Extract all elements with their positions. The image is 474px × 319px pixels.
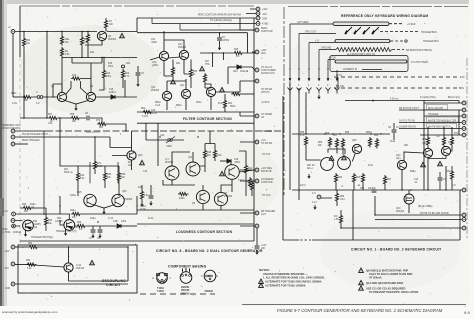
misc small value labels xyxy=(12,14,460,235)
svg-text:R68a: R68a xyxy=(410,171,416,173)
svg-text:GND: GND xyxy=(262,19,267,21)
diode CR4 xyxy=(237,65,241,69)
resistor R47B xyxy=(213,149,216,160)
svg-text:R70: R70 xyxy=(422,139,427,141)
svg-text:R31a: R31a xyxy=(196,102,202,104)
svg-text:CIRCUIT NO. 8 - BOARD NO. 2 DU: CIRCUIT NO. 8 - BOARD NO. 2 DUAL CONTOUR… xyxy=(156,249,263,253)
wire: lower rail y57 xyxy=(62,57,137,59)
svg-text:(-) TRIG: (-) TRIG xyxy=(2,232,11,234)
svg-text:100: 100 xyxy=(109,24,114,26)
resistor R71 xyxy=(93,160,96,171)
svg-text:10k: 10k xyxy=(48,223,53,225)
svg-text:+C BUS: +C BUS xyxy=(261,102,270,104)
svg-text:TRIGGER: TRIGGER xyxy=(428,114,439,116)
diode CR2 xyxy=(117,224,121,228)
svg-text:LOUDNESS: LOUDNESS xyxy=(261,179,274,181)
resistor R16 xyxy=(102,69,105,80)
wire rows to terminals xyxy=(399,103,462,135)
svg-text:R50: R50 xyxy=(193,71,198,73)
resistor R64 xyxy=(15,264,26,266)
wire: mid rail xyxy=(292,189,460,191)
wire: terminal feeds xyxy=(239,170,254,181)
wire: pair links xyxy=(306,147,355,162)
svg-text:R41: R41 xyxy=(64,169,69,171)
terminal xyxy=(255,114,259,118)
resistor R46 xyxy=(203,149,206,160)
wire: staircase bus drops xyxy=(290,24,336,70)
svg-text:TRIGGER SW(TH)(L): TRIGGER SW(TH)(L) xyxy=(31,237,53,239)
wire: top dash-dot border xyxy=(20,5,254,7)
jack connector xyxy=(37,96,40,99)
wire: right border of contour generator xyxy=(253,18,255,241)
svg-text:ALTERNATE FOR T1063: 2N3906.: ALTERNATE FOR T1063: 2N3906. xyxy=(265,284,306,288)
svg-text:R47: R47 xyxy=(205,61,210,63)
terminal row right edge xyxy=(462,101,466,105)
resistor R43 xyxy=(140,190,143,201)
svg-text:(LAMP): (LAMP) xyxy=(55,220,63,223)
svg-text:R49a: R49a xyxy=(179,198,185,200)
svg-text:FROM CHASSIS: FROM CHASSIS xyxy=(2,127,20,130)
wire: top rail links xyxy=(137,33,248,67)
capacitor C9 xyxy=(392,130,397,132)
resistor R56 xyxy=(328,137,331,148)
terminal -10V xyxy=(11,262,15,266)
svg-text:REFERENCE ONLY KEYBOARD WIRING: REFERENCE ONLY KEYBOARD WIRING DIAGRAM xyxy=(341,14,428,18)
resistor R30 xyxy=(44,216,47,227)
transistor Q17 xyxy=(179,50,188,59)
svg-text:TO LOUD: TO LOUD xyxy=(262,131,273,133)
svg-text:R63: R63 xyxy=(356,177,361,179)
svg-text:-1k: -1k xyxy=(414,182,418,184)
svg-text:GND: GND xyxy=(5,288,10,290)
svg-text:TRIGGER SW(T)(?): TRIGGER SW(T)(?) xyxy=(56,231,77,233)
svg-text:R14a: R14a xyxy=(90,218,96,220)
page scan edges xyxy=(0,0,474,4)
svg-text:R19a: R19a xyxy=(30,204,36,206)
svg-text:TO KB SW: TO KB SW xyxy=(261,89,273,91)
resistor R-6 xyxy=(339,214,342,225)
svg-text:10k: 10k xyxy=(24,100,29,102)
svg-text:Q8 AND Q11 MATCHED PAIR, PNP: Q8 AND Q11 MATCHED PAIR, PNP xyxy=(366,268,408,272)
resistor R40 xyxy=(76,172,79,183)
svg-text:KB TRIGGER: KB TRIGGER xyxy=(261,211,275,213)
svg-text:TO VCF: TO VCF xyxy=(262,154,271,156)
wire: base feed xyxy=(15,221,23,227)
svg-text:+10V: +10V xyxy=(262,9,268,11)
svg-text:FIGURE 9-7 CONTOUR GENERATOR A: FIGURE 9-7 CONTOUR GENERATOR AND KEYBOAR… xyxy=(277,308,443,313)
svg-text:-10V: -10V xyxy=(262,14,267,16)
svg-text:C1: C1 xyxy=(97,238,101,240)
warning triangle note 3 xyxy=(120,33,125,37)
svg-text:R64: R64 xyxy=(26,260,31,262)
svg-text:1000pF: 1000pF xyxy=(368,188,376,190)
wire: trigger bus dash xyxy=(380,31,419,33)
capacitor C43A xyxy=(149,196,154,198)
svg-text:R72: R72 xyxy=(454,133,459,135)
svg-text:C43: C43 xyxy=(109,89,114,91)
svg-text:LOWER SW ON: LOWER SW ON xyxy=(399,127,416,129)
transistor Q38 xyxy=(352,144,361,153)
svg-text:Q10: Q10 xyxy=(74,227,79,229)
wire: left border vertical xyxy=(19,6,21,57)
svg-text:Q24: Q24 xyxy=(138,155,143,157)
wire: base cross-couple xyxy=(53,81,87,97)
svg-text:10mV TO 20mV LOWER THAN NPN: 10mV TO 20mV LOWER THAN NPN xyxy=(369,272,412,276)
terminal GND xyxy=(11,282,15,286)
svg-text:R16: R16 xyxy=(106,73,111,75)
wire: BRN-B dashed row xyxy=(334,87,458,89)
caption rule xyxy=(242,304,466,306)
svg-text:Q40: Q40 xyxy=(396,155,401,157)
svg-text:R26: R26 xyxy=(22,204,27,206)
terminal xyxy=(255,79,259,83)
svg-text:FILTER CONTOUR SECTION: FILTER CONTOUR SECTION xyxy=(183,117,232,121)
warning triangle xyxy=(200,66,205,70)
resistor R10 xyxy=(22,95,33,98)
svg-text:R50: R50 xyxy=(26,40,31,42)
svg-text:5k: 5k xyxy=(193,74,196,76)
wire: top supply rail xyxy=(15,31,137,33)
svg-text:(AF): (AF) xyxy=(396,157,401,160)
svg-text:E: E xyxy=(153,278,155,280)
transistor Q2 xyxy=(86,92,95,101)
transistor Q22 xyxy=(162,91,171,100)
svg-text:R53a: R53a xyxy=(176,105,182,107)
wire: block interconnects xyxy=(164,60,211,92)
wire: bottom rail of filter box xyxy=(137,111,254,113)
svg-text:10k: 10k xyxy=(107,177,112,179)
resistor R30k xyxy=(450,170,453,181)
resistor R63 xyxy=(352,173,355,184)
svg-text:R20: R20 xyxy=(125,73,130,75)
svg-text:(LAMP): (LAMP) xyxy=(33,223,41,226)
svg-text:C40: C40 xyxy=(151,110,156,112)
resistor R3 xyxy=(86,33,89,44)
svg-text:R59: R59 xyxy=(374,135,379,137)
svg-text:K.O PITCH BAR: K.O PITCH BAR xyxy=(411,61,428,64)
svg-text:CONTOURED: CONTOURED xyxy=(261,70,276,72)
resistor R26 xyxy=(22,206,33,209)
svg-text:C-5: C-5 xyxy=(452,185,456,187)
capacitor C8 xyxy=(87,116,89,121)
svg-text:+B: +B xyxy=(261,117,264,119)
svg-text:TO PREVENT PARASITIC OSCILLATI: TO PREVENT PARASITIC OSCILLATION. xyxy=(369,290,419,294)
key switch contact arrows row 1 xyxy=(289,68,339,81)
svg-text:2N4303: 2N4303 xyxy=(205,290,214,293)
svg-text:62k: 62k xyxy=(318,145,323,147)
wire: loudness box lines xyxy=(137,223,254,225)
resistor R5 xyxy=(60,47,63,58)
svg-text:+10V REG: +10V REG xyxy=(261,168,272,170)
svg-text:R-0a: R-0a xyxy=(390,141,396,143)
svg-text:C-0k: C-0k xyxy=(12,103,18,105)
warning triangle xyxy=(90,260,95,264)
svg-text:10%: 10% xyxy=(217,155,222,157)
svg-text:T1063: T1063 xyxy=(157,290,164,293)
svg-text:R67: R67 xyxy=(48,114,53,116)
transistor Q6 xyxy=(97,31,106,40)
terminal KBD trigger xyxy=(11,129,15,133)
svg-text:ALTERNATE FOR T1062 AND 2N3415: ALTERNATE FOR T1062 AND 2N3415: 2N3904. xyxy=(265,280,322,284)
svg-text:PERC TRIGGER: PERC TRIGGER xyxy=(22,140,40,142)
resistor R55 xyxy=(304,136,307,147)
svg-text:.0082: .0082 xyxy=(151,42,157,44)
capacitor C5 xyxy=(217,38,222,40)
terminal +10V xyxy=(11,245,15,249)
svg-text:BULK ADJUST: BULK ADJUST xyxy=(428,107,444,110)
svg-text:OUT: OUT xyxy=(261,214,266,216)
bus bar trigger xyxy=(335,40,390,43)
svg-text:24(?): 24(?) xyxy=(300,185,306,187)
svg-text:R39: R39 xyxy=(121,174,126,176)
wire: Q18 collector to terminal xyxy=(216,67,240,92)
svg-text:R67: R67 xyxy=(387,179,392,181)
svg-text:1.5k: 1.5k xyxy=(334,219,339,221)
svg-text:C-5: C-5 xyxy=(312,193,316,195)
svg-text:BULK in(tv): BULK in(tv) xyxy=(448,96,460,99)
svg-text:C: C xyxy=(170,278,172,280)
svg-text:1k-04: 1k-04 xyxy=(151,113,157,115)
wire: ETC dashed row xyxy=(334,76,458,78)
svg-text:TO KB SW: TO KB SW xyxy=(261,143,273,145)
wire: trigger rail y214 xyxy=(16,213,71,215)
resistor R45 xyxy=(233,51,244,54)
wire: rail y118 xyxy=(20,118,102,124)
svg-text:5-104: 5-104 xyxy=(142,116,149,118)
diode CR5 xyxy=(227,159,231,163)
svg-text:WHITE AND SWITCH: WHITE AND SWITCH xyxy=(428,126,451,129)
ground xyxy=(317,95,320,100)
svg-text:PULSE TRIGGER INPUT: PULSE TRIGGER INPUT xyxy=(22,134,49,136)
resistor R49 xyxy=(231,92,242,95)
resistor R62 xyxy=(334,173,337,184)
wire: 6.33ma feed xyxy=(345,100,459,102)
wire: upper mesh xyxy=(158,123,246,196)
terminal: press contour out xyxy=(255,28,259,32)
svg-text:.0082: .0082 xyxy=(234,162,240,164)
svg-text:C1b: C1b xyxy=(143,171,148,173)
svg-text:CONTOUR: CONTOUR xyxy=(261,31,273,33)
svg-text:C41: C41 xyxy=(151,39,156,41)
svg-text:9-9: 9-9 xyxy=(464,310,471,315)
svg-text:5.1k: 5.1k xyxy=(27,268,32,270)
svg-text:+10V: +10V xyxy=(4,251,10,253)
svg-text:CIRCUIT: CIRCUIT xyxy=(106,283,121,287)
terminal perc trigger xyxy=(11,135,15,139)
svg-text:R54: R54 xyxy=(28,243,33,245)
svg-text:100k: 100k xyxy=(121,221,127,223)
resistor R67 xyxy=(48,116,59,119)
svg-text:24 (pitch) PO(a: 24 (pitch) PO(a xyxy=(420,96,436,99)
transistor Q10 xyxy=(64,220,75,231)
svg-text:10k: 10k xyxy=(26,43,31,45)
svg-text:C-34: C-34 xyxy=(76,265,82,267)
svg-text:10k: 10k xyxy=(72,121,77,123)
svg-text:C5: C5 xyxy=(222,37,226,39)
scan mottle xyxy=(20,25,160,115)
resistor R68 xyxy=(70,116,81,119)
svg-text:Q38: Q38 xyxy=(352,140,357,142)
svg-text:28C: 28C xyxy=(404,145,409,147)
wire: bottom rail xyxy=(137,209,254,211)
resistor R40a xyxy=(250,181,253,192)
svg-text:+C BAR: +C BAR xyxy=(407,23,416,26)
svg-text:R60: R60 xyxy=(57,218,62,220)
svg-text:Q21: Q21 xyxy=(180,85,185,87)
capacitor C47 at terminal xyxy=(256,228,258,245)
svg-text:TO FIL CO.: TO FIL CO. xyxy=(261,67,273,69)
svg-text:KB (PITCH) V/OCT: KB (PITCH) V/OCT xyxy=(399,108,419,110)
svg-text:+V: +V xyxy=(8,27,11,29)
wire: trig feed vertical xyxy=(44,131,118,215)
resistor R15 xyxy=(71,77,82,80)
resistor R49a xyxy=(178,192,189,195)
transistor Q19 xyxy=(165,166,179,180)
svg-text:R45: R45 xyxy=(234,49,239,51)
transistor Q36 (big) xyxy=(321,158,334,171)
bus bar +C xyxy=(333,22,389,25)
svg-text:2N3906: 2N3906 xyxy=(224,196,233,198)
svg-text:(BLUE TOBE): (BLUE TOBE) xyxy=(418,206,433,208)
transistor Q24 xyxy=(127,151,136,160)
svg-text:(ETC): (ETC) xyxy=(336,75,342,77)
svg-text:620: 620 xyxy=(24,211,29,213)
svg-text:R73: R73 xyxy=(96,120,101,122)
resistor R39 xyxy=(117,172,120,183)
transistor Q42 xyxy=(441,146,450,155)
svg-text:CIRCUIT NO. 1 - BOARD NO. 2 KE: CIRCUIT NO. 1 - BOARD NO. 2 KEYBOARD CIR… xyxy=(351,248,441,252)
svg-text:2N3906: 2N3906 xyxy=(151,90,160,92)
capacitor C10 xyxy=(92,226,94,229)
svg-text:C13: C13 xyxy=(414,179,419,181)
terminal trigger in 1 xyxy=(12,212,16,216)
svg-text:+10V: +10V xyxy=(261,50,267,52)
svg-text:R16: R16 xyxy=(108,63,113,65)
resistor R67A xyxy=(383,175,386,186)
ground xyxy=(74,106,77,111)
terminal group top right xyxy=(256,7,260,11)
svg-text:KBD&PERC TRIG: KBD&PERC TRIG xyxy=(2,125,21,127)
svg-text:TRIGGER BUS: TRIGGER BUS xyxy=(423,41,439,43)
svg-text:Q25: Q25 xyxy=(77,192,82,194)
svg-text:620: 620 xyxy=(99,127,104,129)
terminal xyxy=(255,179,259,183)
svg-text:R-3A: R-3A xyxy=(148,217,154,220)
svg-text:2N3392: 2N3392 xyxy=(178,47,187,49)
svg-text:PERC: PERC xyxy=(261,28,268,30)
ground xyxy=(25,230,27,232)
svg-text:CURRENT IN: CURRENT IN xyxy=(343,69,357,71)
warning triangle xyxy=(140,160,145,164)
svg-text:10/50V: 10/50V xyxy=(222,40,230,42)
svg-text:WHITE TO BK AND FILTER: WHITE TO BK AND FILTER xyxy=(420,212,449,215)
svg-text:LOUDNESS CONTOUR SECTION: LOUDNESS CONTOUR SECTION xyxy=(176,230,233,234)
terminal xyxy=(255,224,259,228)
svg-text:R36: R36 xyxy=(107,174,112,176)
svg-text:1N914: 1N914 xyxy=(109,92,116,94)
svg-text:Q25a: Q25a xyxy=(70,195,76,197)
basing 2N3392 xyxy=(180,272,192,284)
svg-text:CR4: CR4 xyxy=(233,71,238,73)
svg-text:C7: C7 xyxy=(89,238,93,240)
resistor R66 xyxy=(335,192,338,203)
terminal xyxy=(255,211,259,215)
svg-text:C-0: C-0 xyxy=(36,103,40,105)
svg-text:AT 200mA.: AT 200mA. xyxy=(369,276,382,280)
svg-text:R3a: R3a xyxy=(90,52,95,54)
svg-text:R52a: R52a xyxy=(155,102,161,104)
svg-text:.0082: .0082 xyxy=(166,146,172,148)
transistor Q40 xyxy=(397,160,406,169)
svg-text:R58: R58 xyxy=(345,132,350,134)
capacitor C44 trimmer xyxy=(168,139,173,141)
svg-text:R-6: R-6 xyxy=(334,216,338,218)
wire: left feeders xyxy=(290,81,459,200)
svg-text:R66: R66 xyxy=(340,196,345,198)
svg-text:T5%: T5% xyxy=(205,64,210,66)
svg-text:scanned by www.fantasyjackpala: scanned by www.fantasyjackpalance.com xyxy=(2,310,58,314)
svg-text:S: S xyxy=(201,276,203,278)
svg-text:OUT (?) TO KB: OUT (?) TO KB xyxy=(399,121,415,123)
terminal xyxy=(255,140,259,144)
terminal trigger in 2 xyxy=(11,219,15,223)
svg-text:C4A: C4A xyxy=(152,61,157,64)
warning triangle xyxy=(438,161,443,165)
svg-text:R-1k: R-1k xyxy=(368,165,374,167)
transistor Q23 xyxy=(225,165,240,180)
svg-text:R7: R7 xyxy=(109,21,113,23)
transistor Q26 xyxy=(112,194,124,206)
capacitor C11 xyxy=(99,226,101,229)
resistor R46 xyxy=(171,66,174,77)
svg-text:2N3906: 2N3906 xyxy=(124,199,133,201)
svg-text:KB RESISTOR STRIP(S): KB RESISTOR STRIP(S) xyxy=(406,50,432,52)
svg-text:1.14: 1.14 xyxy=(312,202,317,204)
svg-text:TO VCA: TO VCA xyxy=(262,194,271,197)
ground xyxy=(307,174,310,179)
svg-text:R33: R33 xyxy=(77,222,82,224)
svg-text:-1A: -1A xyxy=(436,135,440,138)
svg-text:C9: C9 xyxy=(388,127,392,129)
svg-text:(SO): (SO) xyxy=(261,53,266,55)
transistor Q28 xyxy=(214,192,227,205)
svg-text:150k: 150k xyxy=(106,76,112,78)
resistor R7 xyxy=(104,19,107,30)
svg-text:WHITE TOP AND BLK TOP: WHITE TOP AND BLK TOP xyxy=(428,120,457,123)
svg-text:1%: 1% xyxy=(236,56,239,58)
resistor R51 xyxy=(223,99,226,110)
svg-text:FROM KB: FROM KB xyxy=(261,171,272,173)
svg-text:Q43: Q43 xyxy=(396,208,401,210)
wire: right cluster xyxy=(404,127,452,190)
warning triangle note xyxy=(171,79,176,83)
svg-text:Q9: Q9 xyxy=(34,227,38,229)
wire: contour block bottom feeds xyxy=(60,196,137,214)
svg-text:TRIGGER BUS: TRIGGER BUS xyxy=(421,32,437,34)
terminal strip extra labels xyxy=(261,89,273,197)
wire stubs into board xyxy=(240,30,255,226)
capacitor C7 xyxy=(438,178,443,180)
svg-text:FILTER CON: FILTER CON xyxy=(261,73,275,75)
svg-text:C43A: C43A xyxy=(140,205,146,208)
svg-text:C-10: C-10 xyxy=(108,218,114,220)
wire: divider dash-dot xyxy=(283,7,285,196)
svg-text:2N36: 2N36 xyxy=(2,229,8,231)
svg-text:1. ALL RESISTORS IN OHMS ) 5%: 1. ALL RESISTORS IN OHMS ) 5%, 1/4W CARB… xyxy=(263,276,325,280)
terminal: filter out xyxy=(255,50,259,54)
svg-text:28C Ch: 28C Ch xyxy=(307,165,316,167)
svg-text:C45: C45 xyxy=(234,159,239,161)
